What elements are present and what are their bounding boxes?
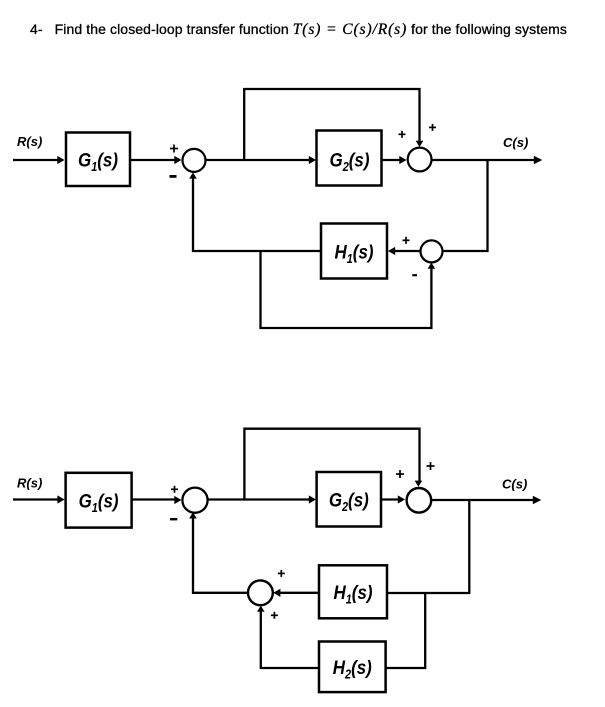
svg-text:G1(s): G1(s) [78, 148, 118, 174]
wire output branch down to H1 d2 [387, 500, 469, 593]
svg-text:H1(s): H1(s) [333, 581, 372, 607]
block G2 d1 [317, 131, 382, 186]
block H1 d2 [319, 565, 387, 618]
svg-text:R(s): R(s) [17, 134, 42, 149]
arrowhead into G2 d2 [309, 495, 316, 503]
wire sum3 to H1 [393, 250, 421, 252]
minus at sum3 [412, 274, 417, 276]
wire R(s) input arrow [13, 159, 59, 161]
svg-text:C(s): C(s) [503, 135, 528, 150]
wire H1 to sum3 d2 [279, 592, 319, 594]
plus bottom at sum3 d2 [271, 614, 278, 616]
plus right at sum2 [429, 126, 436, 128]
wire G1 to sum1 d2 [132, 498, 176, 500]
wire G2 to sum2 [382, 159, 402, 161]
svg-text:G1(s): G1(s) [79, 489, 119, 515]
block H2 d2 [319, 642, 386, 693]
wire G2 to sum2 d2 [381, 498, 400, 500]
summing junction sum3 d1 [421, 240, 443, 262]
svg-text:G2(s): G2(s) [329, 488, 369, 514]
block G2 d2 [317, 472, 381, 527]
plus left at sum2 [399, 133, 406, 135]
wire sum3 to sum1 feedback d2 [193, 517, 248, 593]
svg-text:H1(s): H1(s) [334, 240, 373, 266]
wire output branch down to sum3 [443, 160, 488, 251]
arrowhead down into sum2 d2 [415, 481, 423, 487]
title [30, 21, 567, 39]
summing junction sum3 d2 [248, 580, 273, 605]
block H1 d1 [321, 224, 387, 279]
wire branch up to top path [244, 89, 419, 159]
plus top at sum3 d2 [278, 572, 285, 574]
svg-text:R(s): R(s) [17, 476, 42, 491]
wire junction down to H2 d2 [386, 593, 426, 668]
wire R(s) input arrow d2 [13, 498, 59, 500]
wire H2 to sum3 bottom d2 [261, 612, 319, 668]
wire bottom path branch to sum3 [261, 251, 432, 328]
arrowhead up into sum1 bottom [189, 172, 197, 178]
arrowhead into G2 [309, 156, 316, 164]
arrowhead down into sum2 [416, 141, 424, 147]
arrowhead into sum2 left [399, 156, 406, 164]
block G1 d1 [66, 133, 130, 187]
arrowhead into sum1 d2 [174, 496, 181, 504]
svg-text:C(s): C(s) [502, 477, 527, 492]
arrowhead into H1 right [388, 247, 395, 255]
minus at sum1 d2 [170, 518, 177, 520]
wire H1 to sum1 feedback [193, 177, 321, 251]
summing junction sum1 d2 [182, 488, 207, 513]
summing junction sum2 d1 [408, 148, 432, 172]
arrowhead into G1 d2 [57, 495, 64, 503]
arrowhead output C(s) d2 [533, 496, 542, 504]
summing junction sum1 d1 [183, 149, 206, 172]
plus right at sum2 d2 [427, 465, 435, 467]
block G1 d2 [66, 473, 132, 528]
arrowhead into sum1 [174, 156, 181, 164]
arrowhead into sum3 right d2 [273, 589, 280, 597]
arrowhead up into sum3 bottom d2 [257, 606, 265, 612]
arrowhead up into sum1 bottom d2 [189, 512, 197, 518]
summing junction sum2 d2 [407, 488, 432, 513]
wire branch up top path d2 [244, 429, 419, 499]
wire sum1 to G2 [206, 159, 311, 161]
arrowhead into sum2 left d2 [398, 495, 405, 503]
svg-text:G2(s): G2(s) [330, 148, 370, 174]
plus at sum1 [170, 148, 178, 150]
arrowhead output C(s) [534, 156, 543, 164]
wire sum2 output to C(s) [432, 159, 536, 161]
plus at sum1 d2 [171, 488, 178, 490]
svg-text:H2(s): H2(s) [333, 656, 372, 682]
wire sum2 output to C(s) d2 [431, 499, 535, 501]
plus at sum3 [403, 239, 410, 241]
minus at sum1 [170, 175, 177, 178]
arrowhead up into sum3 bottom [428, 263, 436, 269]
wire sum1 to G2 d2 [207, 498, 311, 500]
plus left at sum2 d2 [396, 473, 404, 475]
wire G1 to sum1 [131, 159, 176, 161]
arrowhead into G1 [57, 156, 64, 164]
